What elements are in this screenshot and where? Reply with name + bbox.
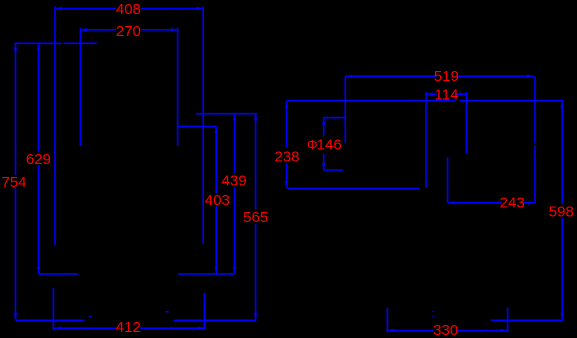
svg-text:114: 114 <box>435 87 459 104</box>
svg-text:238: 238 <box>274 149 299 166</box>
svg-text:754: 754 <box>1 174 26 191</box>
svg-text:565: 565 <box>243 209 268 226</box>
svg-text:629: 629 <box>26 151 51 168</box>
svg-text:439: 439 <box>222 173 247 190</box>
svg-text:598: 598 <box>549 204 574 221</box>
svg-text:243: 243 <box>500 195 525 212</box>
svg-text:330: 330 <box>433 322 458 338</box>
svg-text:519: 519 <box>434 68 459 85</box>
svg-text:146: 146 <box>317 137 342 154</box>
svg-text:270: 270 <box>116 23 141 40</box>
svg-text:412: 412 <box>116 319 141 336</box>
svg-text:408: 408 <box>116 1 141 18</box>
svg-text:403: 403 <box>205 192 230 209</box>
